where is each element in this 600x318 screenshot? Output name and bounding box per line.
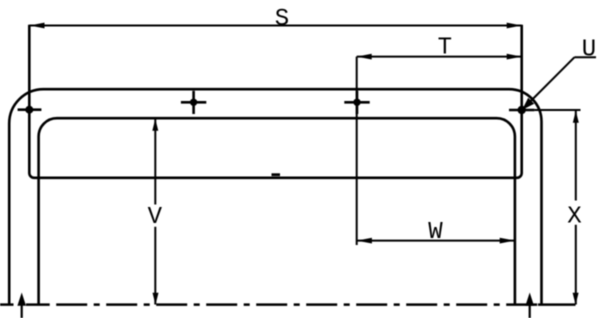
- svg-text:T: T: [438, 35, 452, 62]
- center mark tick: [272, 173, 281, 176]
- dimension X: [534, 110, 580, 305]
- recess outline with extension lines: [29, 25, 521, 178]
- svg-text:X: X: [567, 204, 581, 231]
- bottom arrow right: [525, 293, 534, 318]
- svg-text:W: W: [428, 219, 443, 246]
- leader U: [522, 57, 596, 109]
- dimension V: [154, 119, 156, 305]
- hole target mid-right: [344, 91, 369, 114]
- svg-text:U: U: [582, 36, 596, 63]
- dimension T: [357, 57, 522, 245]
- window opening outline: [39, 118, 515, 303]
- svg-text:V: V: [148, 204, 163, 231]
- hole target mid-left: [181, 91, 206, 114]
- svg-text:S: S: [275, 6, 289, 33]
- dimension S: [29, 25, 521, 27]
- centerline: [0, 303, 576, 306]
- hole target right corner: [509, 106, 534, 114]
- hole target left: [18, 106, 42, 114]
- body outline: [9, 89, 541, 303]
- bottom arrow left: [17, 293, 26, 318]
- dimension W: [357, 240, 515, 242]
